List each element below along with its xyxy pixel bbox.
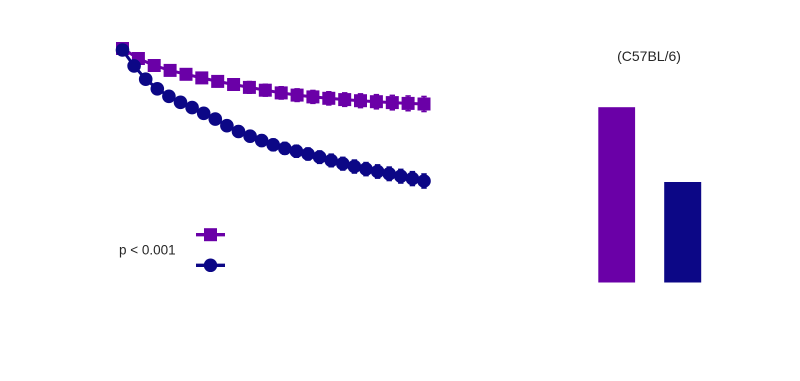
errorbar series P (purple squares) : error bars xyxy=(120,44,427,112)
svg-text:(C57BL/6): (C57BL/6) xyxy=(617,48,681,64)
series P line xyxy=(123,49,425,105)
legend handle B (circle) xyxy=(196,259,225,273)
legend handle P (square) xyxy=(196,228,225,241)
series B markers xyxy=(116,43,431,188)
errorbar series B (blue circles) : error bars xyxy=(120,46,427,189)
series P markers xyxy=(116,42,431,111)
bar P xyxy=(598,107,635,282)
svg-text:p < 0.001: p < 0.001 xyxy=(119,243,176,258)
bar B xyxy=(664,182,701,283)
series B line xyxy=(123,50,425,181)
